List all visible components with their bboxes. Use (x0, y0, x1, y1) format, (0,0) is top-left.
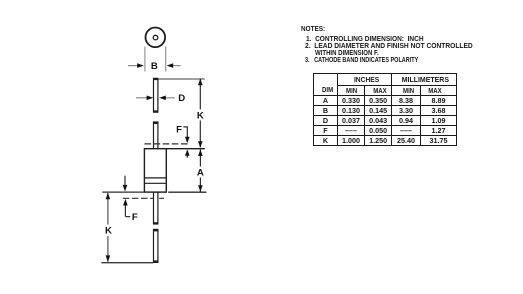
upper F dashed line (145, 143, 190, 145)
lower F down arrow (124, 176, 126, 186)
dimension A line (199, 150, 201, 167)
note 1 (306, 35, 424, 43)
diode body (144, 149, 166, 192)
svg-text:F: F (132, 212, 138, 223)
top view lead dot (153, 35, 158, 40)
cathode band (144, 177, 166, 179)
lower F dashed line (123, 197, 164, 199)
lower lead segment 2 (154, 229, 158, 262)
lower lead segment 1 (154, 192, 158, 223)
dimension B right arrow (173, 65, 181, 67)
extension line left of B (144, 47, 146, 72)
svg-text:K: K (197, 110, 204, 121)
K top extension line (158, 78, 205, 80)
upper F up arrow to body top (186, 155, 188, 158)
dimension B left arrow (128, 65, 138, 67)
body top edge + right extension (144, 148, 204, 150)
svg-text:B: B (151, 61, 158, 72)
note 2 line 1 (305, 42, 473, 50)
dimension D left arrow (136, 97, 148, 99)
upper F leader and arrow (183, 127, 187, 134)
extension line right of B (165, 47, 167, 72)
notes heading (301, 25, 325, 33)
dimension K upper line (199, 79, 201, 110)
note 3 (305, 56, 418, 64)
bottom extension line (101, 262, 153, 264)
body bottom right extension (168, 191, 206, 193)
upper lead segment 2 (154, 122, 158, 149)
svg-text:F: F (176, 124, 182, 135)
top view body circle (146, 28, 166, 48)
svg-text:D: D (178, 93, 185, 104)
dimension K lower line (107, 193, 109, 225)
dimension table (313, 73, 457, 146)
svg-text:K: K (105, 225, 112, 236)
lower F up arrow and leader (124, 205, 126, 217)
body bottom left extension (102, 191, 144, 193)
dimension D right arrow (165, 97, 174, 99)
note 2 line 2 (315, 49, 379, 57)
upper lead segment 1 (154, 78, 158, 111)
svg-text:A: A (197, 167, 204, 178)
